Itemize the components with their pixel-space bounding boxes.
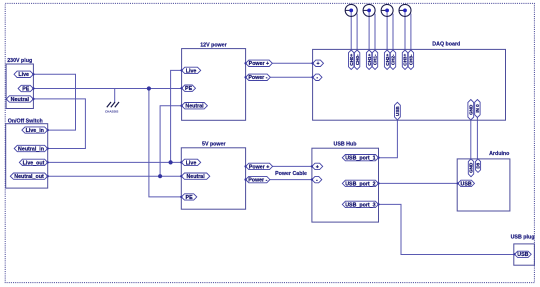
svg-text:Power Cable: Power Cable [275, 171, 307, 177]
svg-text:Neutral_in: Neutral_in [18, 146, 44, 152]
svg-text:GND: GND [469, 162, 474, 173]
svg-text:5V power: 5V power [202, 142, 226, 148]
svg-text:+: + [316, 164, 319, 170]
svg-text:-: - [316, 75, 318, 81]
svg-text:Live: Live [186, 160, 197, 166]
svg-text:GND: GND [469, 104, 474, 115]
svg-text:USB: USB [517, 252, 528, 258]
svg-text:USB_port_1: USB_port_1 [345, 156, 375, 162]
svg-text:Power -: Power - [248, 178, 267, 184]
svg-text:Neutral: Neutral [185, 104, 204, 110]
svg-text:+: + [317, 61, 320, 67]
svg-text:USB: USB [461, 181, 472, 187]
svg-text:12V power: 12V power [200, 43, 227, 49]
svg-text:CH0-: CH0- [355, 54, 360, 65]
svg-text:DAQ board: DAQ board [432, 42, 460, 48]
svg-text:IN 0: IN 0 [475, 104, 480, 113]
svg-text:PE: PE [186, 195, 194, 201]
svg-text:On/Off Switch: On/Off Switch [8, 119, 43, 125]
svg-text:Power +: Power + [249, 164, 269, 170]
svg-text:D8: D8 [476, 162, 481, 168]
svg-text:Power -: Power - [248, 75, 267, 81]
svg-text:PE: PE [22, 86, 30, 92]
svg-text:CH3+: CH3+ [403, 54, 408, 66]
svg-text:CH2-: CH2- [391, 54, 396, 65]
svg-text:Neutral_out: Neutral_out [14, 174, 44, 180]
svg-text:-: - [316, 178, 318, 184]
svg-text:Live: Live [186, 68, 197, 74]
svg-text:USB: USB [395, 106, 400, 116]
svg-text:CH0+: CH0+ [349, 54, 354, 66]
svg-text:USB Hub: USB Hub [334, 141, 358, 147]
svg-text:USB plug: USB plug [511, 235, 535, 241]
svg-text:CH3-: CH3- [409, 54, 414, 65]
svg-text:Neutral: Neutral [11, 97, 30, 103]
svg-text:CHASSIS: CHASSIS [105, 109, 118, 113]
svg-text:Live_in: Live_in [26, 128, 44, 134]
svg-text:Live: Live [18, 72, 29, 78]
svg-text:CH2+: CH2+ [385, 54, 390, 66]
svg-text:Live_out: Live_out [23, 160, 45, 166]
svg-text:230V plug: 230V plug [7, 58, 32, 64]
svg-text:CH1-: CH1- [373, 54, 378, 65]
svg-text:Arduino: Arduino [489, 151, 510, 157]
svg-text:USB_port_3: USB_port_3 [345, 202, 375, 208]
svg-text:USB_port_2: USB_port_2 [345, 181, 375, 187]
svg-text:CH1+: CH1+ [367, 54, 372, 66]
svg-text:Power +: Power + [249, 61, 269, 67]
svg-text:Neutral: Neutral [186, 174, 205, 180]
svg-text:PE: PE [185, 86, 193, 92]
